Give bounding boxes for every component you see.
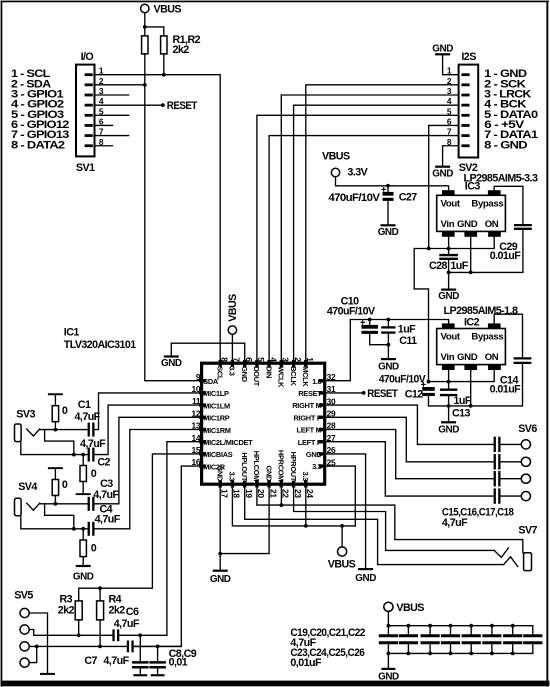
node RESET (right) xyxy=(362,388,399,400)
wire bank to GND xyxy=(387,653,389,667)
label SV6 xyxy=(518,423,537,435)
junction SV4 NC-sleeve xyxy=(72,527,76,531)
svg-text:23: 23 xyxy=(293,489,303,498)
label IC3 xyxy=(465,181,481,193)
svg-text:GND: GND xyxy=(378,362,399,373)
wire net LEFT P (pin27 to SV6 row4) xyxy=(325,442,494,496)
label 1uF (C13) xyxy=(454,395,472,407)
capacitor C6 4,7uF xyxy=(112,629,140,641)
svg-text:GND: GND xyxy=(264,466,273,483)
resistor 0R (SV4 sleeve) to GND xyxy=(80,529,86,565)
svg-text:C6: C6 xyxy=(126,606,139,618)
wire SV3 tip line xyxy=(40,429,88,431)
wire 3.3V rail (VBUS to IC3 Vout) xyxy=(336,177,449,191)
junction SV3 tip-0R xyxy=(54,428,58,432)
resistor R4 2k2 xyxy=(97,601,104,647)
connector SV3 jack tip contact xyxy=(27,429,40,436)
svg-text:HPLCOM: HPLCOM xyxy=(252,451,261,481)
junction C6 out xyxy=(138,633,142,637)
label 470uF/10V (C10) xyxy=(327,305,376,317)
junction C13-GND line xyxy=(447,404,451,408)
capacitor C1 4,7uF xyxy=(88,423,95,437)
svg-text:2k2: 2k2 xyxy=(173,44,190,56)
svg-text:GND: GND xyxy=(432,43,453,54)
wire IC1 pin26 to GND xyxy=(325,454,366,568)
junction VBUS/R2 branch xyxy=(143,25,147,29)
junction IC2 GND tab xyxy=(469,404,473,408)
junction VBUS at IC3 input xyxy=(427,247,431,251)
ground GND (cap bank) xyxy=(378,668,399,683)
ground GND (IC1 pin26) xyxy=(355,568,376,584)
wire IC3 Bypass to C29 xyxy=(494,186,523,224)
svg-text:RESET: RESET xyxy=(167,100,198,112)
regulator IC3 LP2985AIM5-3.3 body xyxy=(437,190,506,237)
capacitor C13 1uF xyxy=(441,382,456,422)
IC1 bottom pin names xyxy=(215,450,310,482)
label 0 (SV3 top) xyxy=(62,405,68,417)
capacitor C8 0,01uF xyxy=(133,635,147,676)
svg-text:HPLOUT: HPLOUT xyxy=(240,452,249,481)
svg-text:VBUS: VBUS xyxy=(396,602,424,614)
svg-text:MIC1LM: MIC1LM xyxy=(203,401,230,410)
svg-text:4,7uF: 4,7uF xyxy=(114,618,140,630)
junction C10/C11 gnd xyxy=(387,343,391,347)
svg-text:GND: GND xyxy=(210,574,231,585)
IC1 bottom pin numbers 17-24 xyxy=(219,489,315,498)
svg-text:ON: ON xyxy=(485,352,499,363)
capacitor C4 4,7uF xyxy=(88,522,95,536)
svg-text:0.01uF: 0.01uF xyxy=(490,384,522,396)
label C19,C20,C21,C22 xyxy=(290,627,365,639)
svg-text:MIC2L/MICDET: MIC2L/MICDET xyxy=(203,438,253,447)
wire R4 top xyxy=(99,588,101,601)
label 4,7uF (C1) xyxy=(75,411,101,423)
wire net RESET (SV1 pin4) xyxy=(95,104,163,106)
svg-text:GND: GND xyxy=(306,450,323,459)
svg-text:SV1: SV1 xyxy=(76,162,95,174)
svg-text:4,7uF: 4,7uF xyxy=(95,514,121,526)
label C6 xyxy=(126,606,139,618)
junction pad3/pad4 xyxy=(35,645,39,649)
wire SV5 pad2 to C6 row xyxy=(29,630,112,636)
label 4,7uF (C4) xyxy=(95,514,121,526)
wire IC3 input node xyxy=(414,237,494,249)
capacitor C10 470uF/10V xyxy=(361,320,389,345)
wire SV4 sleeve line xyxy=(21,516,88,529)
wire C3 to MIC1RP (IC1 pin12) xyxy=(95,417,202,504)
label C15,C16,C17,C18 xyxy=(442,507,514,519)
svg-text:3.3: 3.3 xyxy=(228,472,237,482)
ground GND (C27) xyxy=(378,224,399,238)
wire C1 to MIC1LP (IC1 pin10) xyxy=(95,393,202,430)
svg-text:SV5: SV5 xyxy=(14,589,33,601)
junction IC3 GND tab xyxy=(469,271,473,275)
svg-text:9: 9 xyxy=(196,372,201,382)
svg-text:Vin: Vin xyxy=(441,219,455,230)
connector SV7 jack ring contact xyxy=(504,557,518,567)
label LP2985AIM5-1.8 xyxy=(444,305,519,317)
wire SV4 NC contact xyxy=(45,504,74,529)
svg-text:C2: C2 xyxy=(97,456,110,468)
wire IC2 input node xyxy=(429,370,495,382)
wire net SDA (SV1 pin2 to IC1 pin9) xyxy=(95,85,202,381)
label C7 xyxy=(84,655,97,667)
label C8,C9 0,01 xyxy=(169,648,197,668)
IC1 top pin names xyxy=(215,366,310,388)
wire SV1 pin3 stub xyxy=(95,94,129,96)
IC1 left pin numbers 9-16 xyxy=(191,372,200,467)
IC1 right pin numbers 32-25 xyxy=(327,372,336,467)
label LP2985AIM5-3.3 xyxy=(464,173,539,185)
svg-text:8: 8 xyxy=(219,357,229,362)
wire net DATA0/DOUT (SV2 pin5 to IC1 pin5) xyxy=(257,115,459,363)
svg-text:I2S: I2S xyxy=(461,51,476,63)
IC1 top pin numbers 8-1 xyxy=(219,357,315,362)
junction Vin/C28 xyxy=(447,247,451,251)
svg-text:Bypass: Bypass xyxy=(471,332,503,343)
wire net SCL (SV1 pin1 to IC1 pin8) xyxy=(95,75,221,364)
label C2 xyxy=(97,456,110,468)
wire net MICBIAS (pin15 to R3/R4) xyxy=(79,454,202,601)
svg-text:MICBIAS: MICBIAS xyxy=(203,450,233,459)
junction pin22 xyxy=(280,503,284,507)
svg-text:RIGHT P: RIGHT P xyxy=(293,413,321,422)
wire SV5 pad3 row xyxy=(29,645,127,647)
label I2S xyxy=(461,51,476,63)
label 1uF (C11) xyxy=(398,324,416,336)
capacitor C29 0.01uF xyxy=(515,225,531,229)
power VBUS supply symbol (cap bank) xyxy=(384,602,425,614)
svg-text:VBUS: VBUS xyxy=(328,558,356,570)
junction stair at C12 xyxy=(427,380,431,384)
connector SV5 pad3 xyxy=(20,642,29,651)
junction GND pins xyxy=(218,552,222,556)
svg-text:GND: GND xyxy=(438,425,459,436)
capacitor C2 4,7uF xyxy=(88,448,95,462)
connector SV6 pads xyxy=(501,440,531,501)
capacitor C7 4,7uF xyxy=(127,641,182,653)
junction SV3 sleeve-0R xyxy=(81,453,85,457)
SV2 pin numbers 1-8 xyxy=(447,66,452,147)
svg-text:SV3: SV3 xyxy=(16,409,35,421)
resistor R2 2k2 (SCL pullup) xyxy=(161,36,167,54)
ground GND (C11) xyxy=(378,358,399,373)
wire net 3.3 bottom (pin18) xyxy=(232,484,355,526)
label C4 xyxy=(100,503,113,515)
wire net MIC2L/MICDET (pin14 to C6) xyxy=(140,442,201,636)
svg-text:C13: C13 xyxy=(452,407,471,419)
regulator IC2 LP2985AIM5-1.8 body xyxy=(437,323,506,370)
resistor R1 2k2 (SDA pullup) xyxy=(142,36,148,54)
wire VBUS to IC1 pin7 xyxy=(231,334,233,363)
junction SV4 tip-0R xyxy=(54,502,58,506)
wire to GND symbol xyxy=(219,554,221,570)
label SV2 xyxy=(459,162,478,174)
label 4,7uF (C2) xyxy=(80,438,106,450)
wire net RIGHT M (pin30 to SV6 row1) xyxy=(325,405,494,444)
ground GND (C13) xyxy=(438,421,459,435)
svg-text:5: 5 xyxy=(256,357,266,362)
label C12 xyxy=(405,389,424,401)
svg-text:SV6: SV6 xyxy=(518,423,537,435)
wire net GND (pins 17,21) xyxy=(220,484,269,553)
svg-text:LEFT M: LEFT M xyxy=(296,426,321,435)
label TLV320AIC3101 xyxy=(64,339,136,351)
connector SV5 pad2 xyxy=(20,625,29,634)
junction R4 bottom xyxy=(98,645,102,649)
svg-text:2: 2 xyxy=(293,357,303,362)
junction SV4 sleeve-0R xyxy=(81,527,85,531)
label C28 1uF xyxy=(429,260,469,272)
junction C11 tap xyxy=(387,318,391,322)
svg-text:0,01uF: 0,01uF xyxy=(290,657,322,669)
resistor 0R (SV3 sleeve) with shield bar xyxy=(76,455,91,496)
capacitor C14 0.01uF xyxy=(515,358,531,363)
svg-text:4: 4 xyxy=(268,357,278,362)
connector SV3 jack sleeve xyxy=(15,424,22,442)
wire bank top rail xyxy=(388,625,532,627)
node RESET (left) xyxy=(161,100,198,112)
label C13 xyxy=(452,407,471,419)
svg-text:470uF/10V: 470uF/10V xyxy=(328,192,380,204)
wire SV1 pin7 stub xyxy=(95,135,129,137)
svg-text:8 - DATA2: 8 - DATA2 xyxy=(11,139,65,151)
svg-text:RESET: RESET xyxy=(367,388,398,400)
label SV7 xyxy=(518,524,537,536)
svg-text:GND: GND xyxy=(378,671,399,682)
svg-text:C12: C12 xyxy=(405,389,424,401)
label R1,R2 2k2 xyxy=(173,34,201,56)
wire net HPLCOM/HPRCOM (pins 20,22 to SV7 sleeve) xyxy=(257,484,523,553)
junction R1-SDA xyxy=(143,83,147,87)
label R4 2k2 xyxy=(109,594,126,617)
SV2 signal list labels xyxy=(484,68,538,151)
svg-text:24: 24 xyxy=(305,489,315,498)
wire net 1.8V (IC1 pin32 to IC2 Vout) xyxy=(325,320,449,381)
label C29 0.01uF xyxy=(490,241,522,262)
wire net +5V VBUS (SV2 pin6 down to IC3 input) xyxy=(429,125,459,248)
wire net 3.3 (pin25 down) xyxy=(325,466,356,526)
label SV3 xyxy=(16,409,35,421)
wire net RIGHT P (pin29 to SV6 row2) xyxy=(325,417,494,462)
svg-text:TLV320AIC3101: TLV320AIC3101 xyxy=(64,339,136,351)
power VBUS supply symbol (top) xyxy=(141,3,182,15)
label R3 2k2 xyxy=(58,594,75,617)
svg-text:21: 21 xyxy=(268,489,278,498)
wire SV1 pin8 stub xyxy=(95,145,113,147)
svg-text:I/O: I/O xyxy=(81,51,94,63)
ground GND (SV4 sleeve) xyxy=(73,565,94,583)
ground GND (IC1 pins 17/21) xyxy=(210,570,231,585)
svg-text:Vin: Vin xyxy=(441,352,455,363)
svg-text:470uF/10V: 470uF/10V xyxy=(327,305,376,317)
svg-text:BCLK: BCLK xyxy=(289,366,298,386)
junction SV3 NC-sleeve xyxy=(72,453,76,457)
svg-text:VBUS: VBUS xyxy=(154,3,182,15)
junction C7 out xyxy=(156,645,160,649)
svg-text:HPRCOM: HPRCOM xyxy=(277,450,286,481)
connector SV4 jack tip contact xyxy=(27,503,40,510)
svg-text:LEFT P: LEFT P xyxy=(298,438,322,447)
svg-text:C1: C1 xyxy=(78,399,91,411)
power VBUS supply symbol (3.3 net) xyxy=(328,526,356,571)
wire VBUS to R1/R2 xyxy=(145,13,164,36)
wire net LEFT M (pin28 to SV6 row3) xyxy=(325,430,494,479)
svg-text:IC2: IC2 xyxy=(464,317,480,329)
wire IC2 Vin tab down xyxy=(448,370,450,382)
svg-text:MIC1LP: MIC1LP xyxy=(203,389,229,398)
resistor 0R (SV3 tip bias) with shield bar xyxy=(48,393,63,429)
svg-text:IC1: IC1 xyxy=(64,327,80,339)
svg-text:C7: C7 xyxy=(84,655,97,667)
svg-text:2k2: 2k2 xyxy=(109,604,126,616)
capacitor C28 1uF xyxy=(441,249,457,289)
svg-text:3.3: 3.3 xyxy=(228,366,237,376)
label C27 xyxy=(399,192,418,204)
wire net LRCK/WCLK (SV2 pin3 to IC1 pin3) xyxy=(281,95,458,363)
svg-text:6: 6 xyxy=(244,357,254,362)
svg-text:Bypass: Bypass xyxy=(471,199,503,210)
wire net DATA1/DIN (SV2 pin7 to IC1 pin4) xyxy=(269,136,459,364)
wire SV5 pad4 join xyxy=(29,646,37,662)
label IC1 xyxy=(64,327,80,339)
junction C10 tap xyxy=(368,318,372,322)
label 4,7uF (bank) xyxy=(290,637,316,649)
ground GND (IC1 pin6) xyxy=(161,355,182,369)
junction R3 bottom xyxy=(77,633,81,637)
capacitor C27 470uF/10V xyxy=(382,186,394,224)
wire C4 to MIC1RM (IC1 pin13) xyxy=(95,430,202,529)
connector SV7 jack sleeve xyxy=(524,553,532,571)
label 4,7uF (C7) xyxy=(103,655,129,667)
svg-text:GND: GND xyxy=(73,572,94,583)
svg-text:RIGHT M: RIGHT M xyxy=(292,401,321,410)
svg-text:SV4: SV4 xyxy=(18,481,37,493)
svg-text:SDA: SDA xyxy=(203,377,219,386)
svg-text:8 - GND: 8 - GND xyxy=(484,139,528,151)
label 4,7uF (C6) xyxy=(114,618,140,630)
svg-text:MIC1RM: MIC1RM xyxy=(203,426,231,435)
svg-text:20: 20 xyxy=(256,489,266,498)
wire R1 to SDA xyxy=(144,54,146,85)
svg-text:1uF: 1uF xyxy=(398,324,416,336)
label C23,C24,C25,C26 xyxy=(290,647,364,659)
label C1 xyxy=(78,399,91,411)
wire net SCK/MCLK (SV2 pin2 to IC1 pin1) xyxy=(306,85,459,363)
wire SV2 pin1 to GND xyxy=(443,55,459,74)
wire C29 to GND net xyxy=(449,230,523,273)
wire VBUS stair to IC2 input xyxy=(414,249,428,382)
ground GND (above SV2) xyxy=(432,43,453,55)
IC1 left pin names xyxy=(203,377,253,471)
wire C14 to GND net xyxy=(429,364,523,406)
IC2 pin labels xyxy=(441,332,504,363)
svg-text:0,01: 0,01 xyxy=(169,657,188,669)
label C10 xyxy=(341,296,360,308)
connector SV5 pad4 xyxy=(20,658,29,667)
label 470uF/10V (C12) xyxy=(379,374,427,386)
svg-text:3.3: 3.3 xyxy=(312,462,322,471)
wire SV4 tip line xyxy=(40,503,88,505)
capacitors C15 C16 C17 C18 4,7uF xyxy=(494,437,501,504)
label C3 xyxy=(100,478,113,490)
svg-text:LP2985AIM5-1.8: LP2985AIM5-1.8 xyxy=(444,305,519,317)
wire IC2 GND tab down xyxy=(470,370,472,406)
wire IC2 Bypass to C14 xyxy=(494,314,522,357)
svg-text:DIN: DIN xyxy=(264,366,273,378)
IC1 right pin names xyxy=(292,377,322,471)
ground GND (C28) xyxy=(438,289,459,302)
wire pin24 down xyxy=(305,484,307,526)
svg-text:0: 0 xyxy=(91,468,97,480)
junction pin24-3.3 xyxy=(304,524,308,528)
SV1 pin numbers 1-8 xyxy=(99,66,104,147)
svg-text:1uF: 1uF xyxy=(450,260,468,272)
wire net MIC2R (pin16 to C7) xyxy=(134,466,202,646)
wire net HPROUT (pin23 to SV7 tip) xyxy=(294,484,495,550)
wire IC1 pin6 to GND xyxy=(171,343,244,363)
wire IC3 Vin tab down xyxy=(448,237,450,249)
label C11 xyxy=(399,335,417,347)
wire SV2 pin8 to GND xyxy=(443,146,459,166)
svg-text:GND: GND xyxy=(457,352,478,363)
svg-text:0: 0 xyxy=(91,542,97,554)
svg-text:0.01uF: 0.01uF xyxy=(490,250,522,262)
label IC2 xyxy=(464,317,480,329)
capacitor C9 0,01uF xyxy=(151,646,165,676)
junction C27 tap xyxy=(386,184,390,188)
svg-text:7: 7 xyxy=(232,357,242,362)
svg-text:17: 17 xyxy=(219,489,229,498)
svg-text:3: 3 xyxy=(281,357,291,362)
ground GND (below SV2) xyxy=(432,166,453,180)
wire net BCK/BCLK (SV2 pin4 to IC1 pin2) xyxy=(294,105,459,363)
capacitor C11 1uF xyxy=(382,320,394,359)
svg-text:SV7: SV7 xyxy=(518,524,537,536)
resistor R3 2k2 xyxy=(75,601,82,635)
label 0 (SV4 top) xyxy=(62,479,68,491)
svg-text:DOUT: DOUT xyxy=(252,366,261,387)
connector SV5 pad1 xyxy=(20,608,29,617)
svg-text:1: 1 xyxy=(305,357,315,362)
junctions bank rails xyxy=(387,624,515,656)
junction R2-SCL xyxy=(162,73,166,77)
power VBUS supply symbol (3.3V rail) xyxy=(322,150,369,178)
op-amp/codec IC1 TLV320AIC3101 body xyxy=(199,360,326,488)
wire net RESET (IC1 pin31) xyxy=(325,392,364,394)
svg-text:18: 18 xyxy=(232,489,242,498)
svg-text:GND: GND xyxy=(457,219,478,230)
svg-text:IC3: IC3 xyxy=(465,181,481,193)
label 4,7uF (C15-18) xyxy=(442,517,468,529)
junction Vin/C13 xyxy=(447,380,451,384)
label 4,7uF (C3) xyxy=(93,489,119,501)
svg-text:VBUS: VBUS xyxy=(227,294,239,322)
junction C28-GND line xyxy=(447,271,451,275)
svg-text:GND: GND xyxy=(240,366,249,383)
label 0 (SV4 bottom) xyxy=(91,542,97,554)
resistor 0R (SV4 tip bias) with shield bar xyxy=(48,467,63,504)
svg-text:HPROUT: HPROUT xyxy=(289,452,298,482)
svg-text:1.8: 1.8 xyxy=(312,377,322,386)
label SV4 xyxy=(18,481,37,493)
svg-text:1uF: 1uF xyxy=(454,395,472,407)
wire C2 to MIC1LM (IC1 pin11) xyxy=(95,405,202,455)
svg-text:0: 0 xyxy=(62,479,68,491)
svg-text:0: 0 xyxy=(62,405,68,417)
svg-text:GND: GND xyxy=(161,358,182,369)
svg-text:4,7uF: 4,7uF xyxy=(103,655,129,667)
